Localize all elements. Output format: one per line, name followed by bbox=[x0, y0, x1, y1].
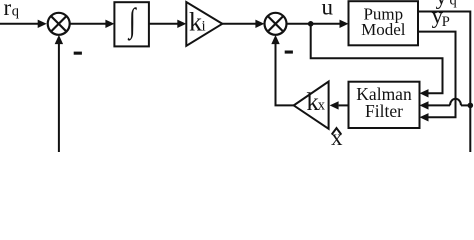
minus sign at S1 feedback input bbox=[74, 52, 82, 55]
svg-text:Model: Model bbox=[361, 20, 406, 39]
node y_q label bbox=[436, 0, 457, 9]
node r_q input label bbox=[4, 0, 20, 20]
integrator block bbox=[114, 2, 148, 46]
svg-text:x: x bbox=[318, 97, 326, 113]
pump model block bbox=[349, 1, 419, 45]
kalman filter block bbox=[349, 82, 420, 128]
wire feedback vertical into S1 bottom with arrowhead bbox=[55, 35, 63, 152]
gain triangle k_x pointing left bbox=[294, 82, 329, 129]
svg-text:Filter: Filter bbox=[365, 101, 403, 121]
wire integrator to gain k_i with arrowhead bbox=[149, 20, 186, 28]
wire S1 to integrator with arrowhead bbox=[71, 20, 115, 28]
summing junction S2 bbox=[265, 13, 287, 35]
node x-hat label bbox=[331, 125, 343, 150]
wire kalman filter output to gain k_x with arrowhead bbox=[330, 101, 349, 109]
wire r_q input to summer S1 with arrowhead bbox=[0, 20, 47, 28]
svg-text:i: i bbox=[202, 18, 206, 34]
wire state feedback from k_x up into S2 bottom with arrowhead bbox=[271, 35, 294, 106]
wire k_i to summer S2 with arrowhead bbox=[222, 20, 264, 28]
wire y_q branch to kalman middle input with hop over y_P line and arrowhead bbox=[420, 99, 471, 110]
svg-text:u: u bbox=[322, 0, 334, 20]
wire output y_q from pump model to right then down bbox=[418, 12, 470, 153]
svg-text:q: q bbox=[450, 0, 457, 9]
node y_P label bbox=[432, 3, 450, 30]
node u junction dot bbox=[308, 21, 314, 27]
svg-text:P: P bbox=[442, 14, 450, 30]
summing junction S1 bbox=[48, 13, 70, 35]
svg-text:k: k bbox=[189, 8, 202, 37]
minus sign at S2 feedback input bbox=[285, 51, 293, 54]
wire S2 to pump model with arrowhead bbox=[287, 20, 349, 28]
svg-text:r: r bbox=[4, 0, 12, 20]
svg-text:x: x bbox=[331, 125, 343, 150]
wire output y_P from pump model right, down, into kalman bottom input with arrowhead bbox=[418, 32, 456, 122]
wire u branch down and right to kalman filter top input with arrowhead bbox=[311, 24, 443, 98]
gain triangle k_i bbox=[186, 2, 222, 46]
svg-text:q: q bbox=[12, 4, 19, 20]
node junction dot on y_q line bbox=[468, 103, 474, 109]
